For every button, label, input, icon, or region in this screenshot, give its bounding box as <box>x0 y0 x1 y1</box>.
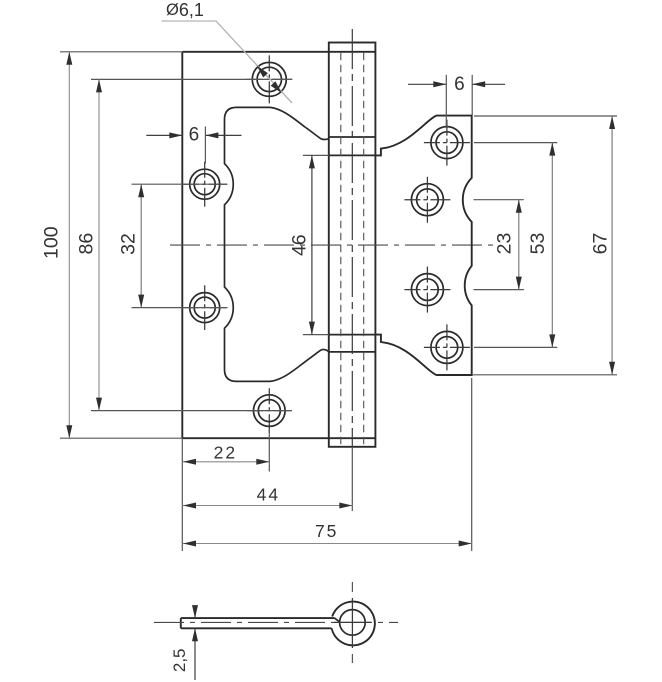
svg-text:23: 23 <box>494 233 516 255</box>
svg-text:32: 32 <box>117 233 139 255</box>
svg-text:100: 100 <box>41 226 63 259</box>
svg-text:75: 75 <box>315 521 338 541</box>
svg-text:67: 67 <box>590 233 612 255</box>
svg-text:6: 6 <box>189 125 200 146</box>
svg-text:53: 53 <box>527 233 549 255</box>
svg-text:46: 46 <box>289 234 311 256</box>
svg-text:22: 22 <box>214 442 237 462</box>
svg-text:2,5: 2,5 <box>170 648 189 672</box>
svg-text:86: 86 <box>76 233 98 255</box>
svg-text:44: 44 <box>257 485 280 505</box>
svg-text:Ø6,1: Ø6,1 <box>166 0 204 20</box>
svg-text:6: 6 <box>454 74 465 95</box>
